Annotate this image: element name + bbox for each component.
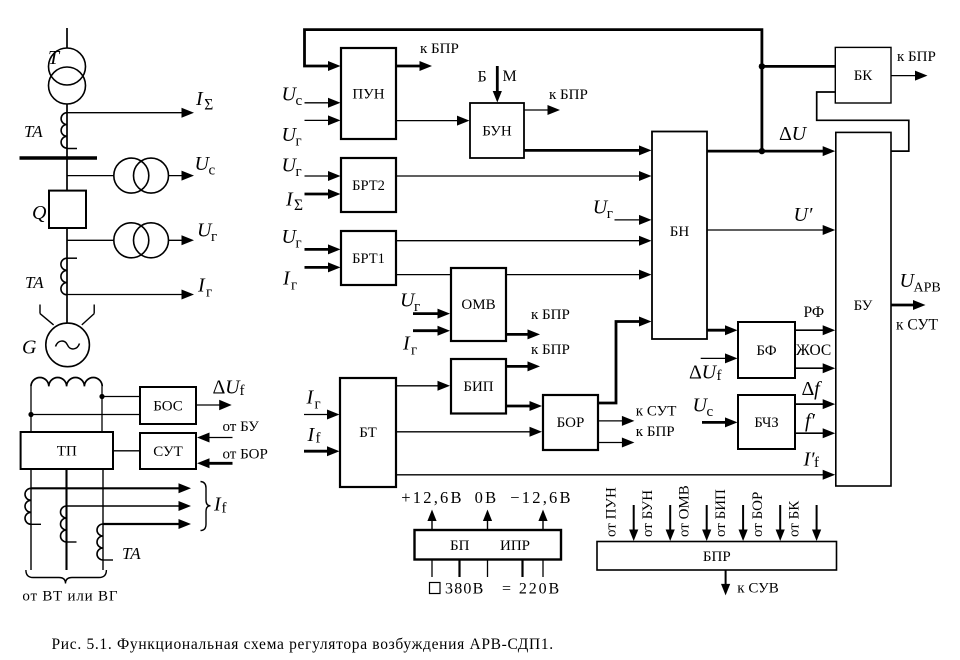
svg-text:от БК: от БК — [786, 500, 802, 537]
svg-text:f: f — [717, 368, 722, 384]
current transformer TA leg2 coil — [61, 506, 67, 542]
current transformer TA (lower) tick — [67, 257, 77, 259]
wire U_g input to BRT1 — [305, 248, 331, 251]
wire I_f input to BT — [304, 450, 329, 453]
wire input ot BOR — [208, 462, 233, 465]
svg-text:к БПР: к БПР — [636, 424, 675, 440]
wire tap to BK — [762, 65, 835, 68]
block TP — [21, 432, 113, 469]
svg-text:c: c — [209, 163, 216, 179]
svg-text:I: I — [306, 387, 315, 409]
wire BRT2 to BN — [396, 175, 641, 177]
wire tap to BOS lower — [31, 414, 141, 416]
wire BK output k BPR — [891, 75, 917, 77]
current transformer TA leg1 coil — [25, 488, 31, 524]
wire BK to BU — [817, 92, 909, 151]
wire BP output +12.6V — [431, 519, 433, 530]
svg-text:I: I — [197, 275, 206, 297]
wire dU_f input to BF — [701, 357, 727, 359]
wire U_c input to PUN — [305, 102, 331, 104]
wire BCHZ output f' — [795, 432, 825, 434]
wire input ot BOR to BPR — [779, 505, 781, 532]
wire input ot PUN to BPR — [633, 505, 635, 532]
current transformer TA (upper) coil — [61, 113, 67, 148]
block OMV — [451, 268, 506, 341]
svg-text:к СУТ: к СУТ — [636, 404, 677, 420]
svg-text:I: I — [195, 88, 204, 110]
wire U' line BN to BU — [707, 229, 825, 231]
wire BT output If' to BU — [396, 474, 825, 476]
wire field winding left leg — [30, 386, 32, 433]
block BK — [835, 47, 891, 103]
wire I_g input to BT — [304, 414, 329, 416]
block PUN — [341, 48, 396, 139]
svg-text:г: г — [211, 229, 217, 245]
block BT — [340, 378, 396, 487]
wire input ot OMV to BPR — [706, 505, 708, 532]
svg-text:f: f — [814, 455, 819, 471]
svg-text:от БУН: от БУН — [640, 490, 656, 537]
svg-text:БИП: БИП — [463, 379, 493, 395]
svg-text:БУН: БУН — [482, 124, 512, 140]
node feedback tap to BK — [759, 63, 765, 69]
wire BP output -12.6V — [542, 519, 544, 530]
block BRT1 — [341, 231, 396, 285]
wire PUN output k BPR — [396, 65, 422, 68]
svg-text:Δ: Δ — [802, 378, 815, 400]
svg-text:f: f — [316, 431, 321, 447]
wire BP pin 1 — [431, 560, 433, 578]
svg-text:I: I — [307, 424, 316, 446]
current transformer TA (upper) tick — [67, 148, 77, 150]
wire OMV output k BPR — [506, 333, 530, 336]
block BCHZ — [738, 395, 795, 449]
brace I_f — [201, 482, 211, 531]
svg-text:0В: 0В — [475, 488, 499, 507]
wire I_sigma branch — [67, 112, 184, 114]
block BU — [836, 132, 891, 486]
wire I_g branch — [67, 294, 184, 296]
busbar — [20, 156, 98, 160]
svg-text:U′: U′ — [794, 204, 813, 226]
svg-text:БП: БП — [450, 538, 470, 554]
block BIP — [451, 359, 506, 414]
svg-text:г: г — [296, 164, 302, 180]
svg-text:от ОМВ: от ОМВ — [676, 485, 692, 537]
wire B M input to BUN — [496, 66, 499, 93]
svg-text:СУТ: СУТ — [153, 444, 183, 460]
svg-text:от БИП: от БИП — [713, 489, 729, 537]
wire BN to BF — [707, 329, 727, 332]
svg-text:г: г — [607, 206, 613, 222]
wire BT to BOR — [396, 431, 532, 433]
transformer T symbol — [49, 48, 86, 85]
svg-text:Рис. 5.1. Функциональная схема: Рис. 5.1. Функциональная схема регулятор… — [52, 636, 554, 653]
svg-text:от БОР: от БОР — [223, 447, 268, 463]
wire BRT1 output 1 to BN — [396, 240, 641, 242]
svg-text:I: I — [282, 268, 291, 290]
svg-text:= 220В: = 220В — [502, 581, 561, 598]
svg-text:БРТ1: БРТ1 — [352, 251, 385, 267]
svg-text:БУ: БУ — [854, 298, 873, 314]
svg-text:г: г — [291, 278, 297, 294]
block SUT — [140, 433, 196, 469]
svg-text:к БПР: к БПР — [549, 87, 588, 103]
wire I_g input to BRT1 — [305, 266, 331, 269]
svg-text:Δ: Δ — [689, 362, 702, 384]
svg-text:I: I — [402, 333, 411, 355]
wire BF output ZHOS — [795, 367, 825, 369]
svg-text:АРВ: АРВ — [914, 281, 941, 296]
svg-text:г: г — [315, 397, 321, 413]
wire input ot BU — [208, 437, 233, 439]
wire BT to BIP — [396, 385, 440, 387]
svg-text:к БПР: к БПР — [531, 342, 570, 358]
wire I_f line 3 — [103, 523, 181, 525]
svg-text:к БПР: к БПР — [420, 41, 459, 57]
wire BUN output k BPR — [524, 109, 550, 111]
circuit breaker Q — [49, 191, 86, 228]
svg-text:f: f — [222, 501, 227, 517]
svg-text:к СУТ: к СУТ — [896, 317, 939, 334]
svg-text:г: г — [414, 299, 420, 315]
svg-text:TA: TA — [24, 122, 43, 141]
wire U_g branch — [67, 239, 184, 241]
wire BP pin 2 — [458, 560, 460, 578]
wire U_c branch — [67, 175, 184, 177]
svg-text:от ПУН: от ПУН — [603, 487, 619, 537]
svg-text:к БПР: к БПР — [897, 49, 936, 65]
wire BP pin 4 — [521, 560, 523, 578]
svg-text:Σ: Σ — [294, 197, 303, 214]
generator stator prongs — [40, 314, 54, 325]
node field winding right tap — [99, 394, 104, 399]
svg-text:I: I — [285, 189, 294, 211]
node field winding left tap — [28, 412, 33, 417]
svg-text:БК: БК — [854, 68, 874, 84]
block BF — [738, 322, 795, 378]
svg-text:БТ: БТ — [359, 425, 377, 441]
svg-text:+12,6В: +12,6В — [401, 488, 463, 507]
svg-text:TA: TA — [25, 273, 44, 292]
wire U_g input to OMV — [413, 312, 440, 315]
block BP IPR — [415, 530, 562, 560]
svg-text:−12,6В: −12,6В — [510, 488, 572, 507]
svg-text:БН: БН — [670, 224, 690, 240]
wire BPR output k SUV — [725, 570, 727, 586]
wire U_g input to PUN — [305, 119, 331, 121]
wire BP pin 5 — [542, 560, 544, 578]
svg-text:БОС: БОС — [153, 399, 183, 415]
svg-text:г: г — [411, 343, 417, 359]
svg-text:Δ: Δ — [213, 377, 226, 399]
node dU junction — [759, 148, 765, 154]
wire BCHZ output df — [795, 403, 825, 405]
wire BP pin 3 — [487, 560, 489, 578]
wire input ot BUN to BPR — [669, 505, 671, 532]
voltage transformer (U_g) symbol — [114, 223, 149, 258]
current transformer TA (lower) coil — [61, 258, 67, 295]
svg-text:f: f — [240, 383, 245, 399]
svg-text:f′: f′ — [805, 410, 816, 432]
wire input ot BIP to BPR — [742, 505, 744, 532]
svg-text:380В: 380В — [445, 581, 484, 598]
wire TP leg 2 — [65, 469, 67, 570]
voltage transformer (U_c) symbol — [114, 158, 149, 193]
label ~380V — [430, 583, 441, 594]
svg-text:к СУВ: к СУВ — [737, 581, 778, 597]
svg-text:БПР: БПР — [703, 549, 731, 565]
svg-text:от БУ: от БУ — [223, 419, 260, 435]
wire input ot BK to BPR — [816, 505, 818, 532]
wire dU line BN to BU — [707, 150, 825, 153]
svg-text:БФ: БФ — [756, 343, 776, 359]
wire BOS output dU_f — [196, 404, 221, 406]
svg-text:ЖОС: ЖОС — [796, 342, 831, 359]
svg-text:г: г — [296, 134, 302, 150]
svg-text:G: G — [22, 337, 37, 359]
wire PUN to BUN — [396, 120, 459, 122]
svg-text:БРТ2: БРТ2 — [352, 178, 385, 194]
wire TP leg 3 — [102, 469, 104, 570]
svg-text:T: T — [48, 47, 61, 69]
current transformer TA leg3 coil — [97, 524, 103, 560]
svg-text:г: г — [296, 236, 302, 252]
wire BP output 0V — [487, 519, 489, 530]
block BN — [652, 132, 707, 340]
svg-text:Σ: Σ — [204, 97, 213, 114]
wire BOR to BN — [598, 322, 642, 404]
block BPR — [597, 542, 837, 571]
svg-text:ПУН: ПУН — [352, 87, 384, 103]
block BOS — [140, 387, 196, 424]
field winding coil — [31, 377, 102, 386]
wire U_c input to BCHZ — [702, 421, 727, 424]
wire U_g input to BN — [615, 219, 642, 221]
wire main spine (grid to generator) — [66, 28, 68, 324]
svg-text:от БОР: от БОР — [750, 492, 766, 537]
svg-text:БЧЗ: БЧЗ — [754, 415, 778, 431]
wire BIP output k BPR — [506, 365, 530, 368]
wire I_f line 1 — [31, 487, 181, 489]
svg-text:к БПР: к БПР — [531, 307, 570, 323]
wire BIP to BOR — [506, 405, 532, 408]
svg-text:Δ: Δ — [779, 123, 792, 145]
svg-text:c: c — [296, 93, 303, 109]
svg-text:TA: TA — [122, 544, 141, 563]
wire TP to SUT — [113, 450, 140, 452]
wire I_sigma input to BRT2 — [305, 193, 331, 196]
wire I_f line 2 — [67, 505, 181, 507]
wire I_g input to OMV — [413, 329, 440, 332]
svg-text:М: М — [503, 68, 517, 85]
svg-text:Q: Q — [32, 202, 47, 224]
wire BU output U_ARV — [891, 304, 915, 307]
svg-text:U: U — [702, 362, 718, 384]
wire U_g input to BRT2 — [305, 175, 331, 177]
svg-text:Б: Б — [478, 69, 487, 86]
svg-text:ОМВ: ОМВ — [461, 297, 495, 313]
wire BF output RF — [795, 329, 825, 331]
wire feedback dU to PUN — [305, 30, 762, 152]
brace ot VT — [26, 570, 107, 584]
block BRT2 — [341, 158, 396, 212]
svg-text:БОР: БОР — [557, 415, 585, 431]
wire BOR output k BPR — [598, 442, 624, 444]
wire BUN to BN — [524, 149, 641, 152]
svg-text:РФ: РФ — [804, 304, 825, 321]
svg-text:c: c — [707, 404, 714, 420]
svg-text:г: г — [206, 285, 212, 301]
svg-text:U: U — [792, 123, 808, 145]
wire TP leg 1 — [30, 469, 32, 570]
svg-text:ТП: ТП — [57, 444, 77, 460]
generator G symbol — [46, 323, 90, 367]
wire BRT1 output 2 to BN — [396, 274, 641, 276]
wire tap to BOS upper — [102, 396, 141, 398]
svg-text:от ВТ или ВГ: от ВТ или ВГ — [22, 589, 118, 605]
block BOR — [543, 395, 598, 450]
wire BOR output k SUT — [598, 420, 624, 422]
wire field winding right leg — [101, 386, 103, 433]
svg-text:ИПР: ИПР — [500, 538, 530, 554]
block BUN — [470, 103, 524, 158]
